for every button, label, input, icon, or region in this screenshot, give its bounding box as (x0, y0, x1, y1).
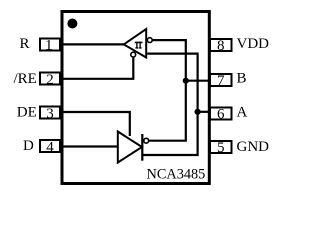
receiver U1 triangle (124, 29, 146, 58)
bubble: driver inverting output B (144, 138, 149, 143)
wire net B branch to pin 7 (186, 80, 209, 82)
wire R: pin1 to receiver output apex (62, 43, 124, 45)
svg-text:A: A (237, 105, 248, 121)
svg-text:1: 1 (45, 38, 53, 54)
svg-text:4: 4 (46, 139, 54, 155)
svg-text:2: 2 (46, 72, 54, 88)
pin 2 box (40, 73, 60, 85)
pin 6 box (210, 108, 232, 120)
svg-text:R: R (19, 36, 29, 52)
pin 4 box (40, 140, 60, 152)
bubble: receiver enable /RE (131, 52, 136, 57)
svg-text:VDD: VDD (237, 36, 270, 52)
pin-1 marker dot (67, 19, 77, 29)
driver U2 triangle (118, 132, 142, 163)
pin 8 box (210, 39, 232, 51)
svg-text:3: 3 (46, 106, 54, 122)
wire net B: receiver inverting input, down, to driver inverting output (149, 40, 186, 141)
svg-text:GND: GND (237, 139, 270, 155)
svg-text:NCA3485: NCA3485 (147, 166, 206, 182)
svg-text:7: 7 (217, 73, 225, 89)
svg-text:B: B (237, 70, 247, 86)
junction dot net A (195, 109, 201, 115)
wire net A branch to pin 6 (198, 111, 209, 113)
IC body NCA3485 (62, 12, 209, 184)
pin 5 box (210, 141, 232, 153)
receiver hysteresis symbol (135, 42, 143, 49)
svg-text:5: 5 (217, 140, 225, 156)
pin 1 box (40, 39, 60, 51)
pin 7 box (210, 74, 232, 86)
driver output bar (141, 134, 143, 161)
svg-text:/RE: /RE (13, 71, 36, 87)
bubble: receiver inverting input B (147, 38, 152, 43)
svg-text:8: 8 (217, 38, 225, 54)
pin 3 box (40, 107, 60, 119)
wire /RE: pin2 to receiver enable bubble (62, 57, 133, 79)
junction dot net B (183, 78, 189, 84)
svg-text:DE: DE (17, 104, 37, 120)
wire DE: pin3 to driver enable (62, 112, 130, 136)
wire net A: receiver non-inverting input, down, to driver output (142, 54, 197, 155)
svg-text:6: 6 (217, 107, 225, 123)
wire D: pin4 to driver input (62, 145, 118, 147)
svg-text:D: D (23, 138, 34, 154)
